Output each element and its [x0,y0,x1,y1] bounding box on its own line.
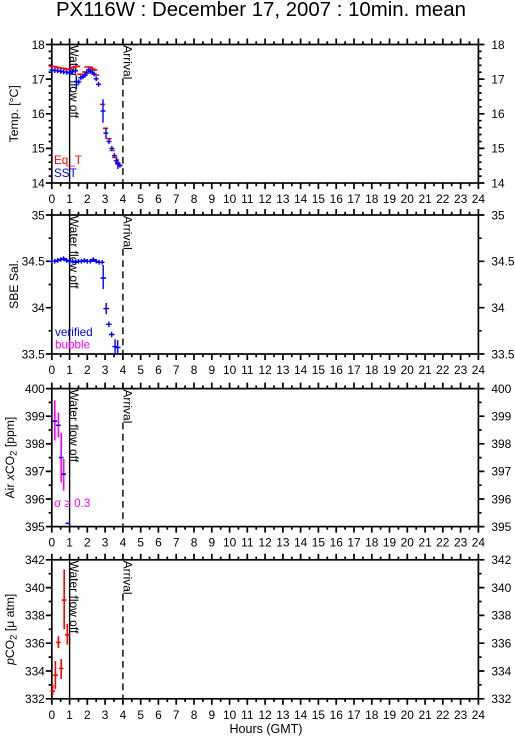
svg-text:15: 15 [312,536,326,550]
svg-text:19: 19 [383,708,397,722]
panel 4 y tick labels [25,553,512,706]
svg-text:3: 3 [102,708,109,722]
svg-text:4: 4 [120,536,127,550]
svg-text:399: 399 [491,410,511,424]
svg-text:8: 8 [191,363,198,377]
svg-text:2: 2 [84,536,91,550]
svg-text:14: 14 [294,708,308,722]
svg-text:34.5: 34.5 [22,255,46,269]
svg-text:2: 2 [84,192,91,206]
svg-text:21: 21 [418,192,432,206]
series air xCO2 error bars (magenta, panel 3) [55,400,64,491]
svg-text:11: 11 [241,192,254,206]
svg-text:15: 15 [312,192,326,206]
svg-text:20: 20 [401,536,415,550]
svg-text:11: 11 [241,363,254,377]
svg-text:16: 16 [32,107,46,121]
water flow off line panel 1 [69,45,71,184]
svg-text:398: 398 [25,437,45,451]
svg-text:10: 10 [223,363,237,377]
svg-text:12: 12 [258,708,272,722]
svg-text:23: 23 [454,708,468,722]
svg-text:13: 13 [276,536,290,550]
svg-text:23: 23 [454,363,468,377]
svg-text:14: 14 [491,176,505,190]
water flow off line panel 2 [69,215,71,354]
panel 2 y tick labels [22,208,515,361]
svg-text:13: 13 [276,363,290,377]
svg-text:7: 7 [173,536,180,550]
svg-text:3: 3 [102,192,109,206]
arrival line panel 4 [122,594,124,699]
svg-text:34.5: 34.5 [491,255,515,269]
svg-text:34: 34 [32,301,46,315]
svg-text:14: 14 [32,176,46,190]
series pCO2 (red, panel 4) [50,570,69,695]
water flow off line panel 4 [69,560,71,699]
svg-text:11: 11 [241,708,254,722]
panel 3 x tick labels [48,536,485,550]
svg-text:18: 18 [365,192,379,206]
svg-text:5: 5 [137,708,144,722]
svg-text:4: 4 [120,192,127,206]
svg-text:Water flow off: Water flow off [67,389,81,462]
svg-text:15: 15 [312,708,326,722]
svg-text:6: 6 [155,363,162,377]
series Eq_T (red dashes, panel 1) [49,66,122,165]
svg-text:35: 35 [32,208,46,222]
svg-text:SBE Sal.: SBE Sal. [7,260,21,309]
svg-text:6: 6 [155,536,162,550]
svg-text:Water flow off: Water flow off [67,216,81,289]
svg-text:400: 400 [491,382,511,396]
svg-text:332: 332 [491,692,511,706]
svg-text:6: 6 [155,708,162,722]
svg-text:SST: SST [54,167,77,180]
svg-text:9: 9 [208,363,215,377]
svg-text:15: 15 [312,363,326,377]
svg-text:10: 10 [223,192,237,206]
svg-text:10: 10 [223,708,237,722]
svg-text:0: 0 [48,192,55,206]
svg-text:14: 14 [294,363,308,377]
svg-text:11: 11 [241,536,254,550]
svg-text:14: 14 [294,536,308,550]
svg-text:21: 21 [418,708,432,722]
svg-text:395: 395 [25,520,45,534]
svg-text:17: 17 [347,536,361,550]
svg-text:18: 18 [365,536,379,550]
svg-text:1: 1 [66,536,73,550]
svg-text:336: 336 [25,637,45,651]
svg-text:396: 396 [25,492,45,506]
svg-text:24: 24 [472,708,486,722]
svg-text:1: 1 [66,708,73,722]
svg-text:20: 20 [401,192,415,206]
svg-text:23: 23 [454,536,468,550]
svg-text:Water flow off: Water flow off [67,561,81,634]
svg-text:8: 8 [191,708,198,722]
svg-text:2: 2 [84,363,91,377]
svg-text:1: 1 [66,192,73,206]
svg-text:397: 397 [491,465,511,479]
svg-text:15: 15 [32,142,46,156]
svg-text:18: 18 [32,38,46,52]
svg-text:0: 0 [48,536,55,550]
svg-text:6: 6 [155,192,162,206]
svg-text:334: 334 [25,664,45,678]
svg-text:9: 9 [208,708,215,722]
svg-text:22: 22 [436,363,450,377]
svg-text:398: 398 [491,437,511,451]
panel 3 y tick labels [25,382,512,534]
svg-text:21: 21 [418,363,432,377]
svg-text:9: 9 [208,536,215,550]
svg-text:2: 2 [84,708,91,722]
svg-text:17: 17 [347,192,361,206]
svg-text:PX116W : December 17, 2007 : 1: PX116W : December 17, 2007 : 10min. mean [56,0,466,21]
svg-text:22: 22 [436,536,450,550]
svg-text:342: 342 [491,553,511,567]
svg-text:334: 334 [491,664,511,678]
series SST (blue pluses, panel 1) [49,67,122,169]
svg-text:12: 12 [258,363,272,377]
svg-text:338: 338 [491,609,511,623]
series salinity flat line (blue, panel 2) [52,259,102,263]
svg-text:33.5: 33.5 [491,347,515,361]
svg-text:21: 21 [418,536,432,550]
svg-text:24: 24 [472,536,486,550]
svg-text:16: 16 [330,363,344,377]
svg-text:400: 400 [25,382,45,396]
svg-text:24: 24 [472,363,486,377]
svg-text:7: 7 [173,192,180,206]
svg-text:340: 340 [25,581,45,595]
svg-text:12: 12 [258,192,272,206]
svg-text:18: 18 [365,363,379,377]
arrival line panel 1 [122,79,124,184]
series air xCO2 centers (blue dashes, panel 3) [53,421,71,523]
svg-text:24: 24 [472,192,486,206]
svg-text:verified: verified [55,326,93,339]
svg-text:34: 34 [491,301,505,315]
svg-text:342: 342 [25,553,45,567]
svg-text:13: 13 [276,708,290,722]
svg-text:15: 15 [491,142,505,156]
svg-text:16: 16 [330,708,344,722]
svg-text:4: 4 [120,363,127,377]
svg-text:20: 20 [401,708,415,722]
panel 1 y tick labels [32,38,505,191]
svg-text:338: 338 [25,609,45,623]
svg-text:14: 14 [294,192,308,206]
svg-text:3: 3 [102,363,109,377]
svg-text:Temp. [°C]: Temp. [°C] [7,85,21,142]
svg-text:19: 19 [383,363,397,377]
svg-text:395: 395 [491,520,511,534]
svg-text:16: 16 [491,107,505,121]
svg-text:8: 8 [191,536,198,550]
svg-text:5: 5 [137,363,144,377]
svg-text:16: 16 [330,536,344,550]
svg-text:33.5: 33.5 [22,347,46,361]
svg-text:18: 18 [491,38,505,52]
arrival line panel 3 [122,423,124,527]
svg-text:10: 10 [223,536,237,550]
svg-text:7: 7 [173,708,180,722]
svg-text:17: 17 [347,708,361,722]
svg-text:9: 9 [208,192,215,206]
svg-text:0: 0 [48,708,55,722]
panel 2 axes frame [46,209,485,360]
svg-text:17: 17 [491,72,505,86]
svg-text:Hours (GMT): Hours (GMT) [230,722,303,736]
svg-text:20: 20 [401,363,415,377]
svg-text:19: 19 [383,192,397,206]
svg-text:Arrival: Arrival [121,561,135,595]
svg-text:7: 7 [173,363,180,377]
svg-text:332: 332 [25,692,45,706]
panel 2 x tick labels [48,363,485,377]
water flow off line panel 3 [69,389,71,527]
svg-text:1: 1 [66,363,73,377]
svg-text:22: 22 [436,192,450,206]
svg-text:336: 336 [491,637,511,651]
svg-text:4: 4 [120,708,127,722]
svg-text:23: 23 [454,192,468,206]
svg-text:13: 13 [276,192,290,206]
svg-text:5: 5 [137,192,144,206]
svg-text:16: 16 [330,192,344,206]
svg-text:399: 399 [25,410,45,424]
svg-text:17: 17 [347,363,361,377]
svg-text:12: 12 [258,536,272,550]
series salinity drop markers (blue, panel 2) [50,256,121,355]
panel 4 axes frame [46,554,485,705]
svg-text:bubble: bubble [55,338,90,351]
svg-text:3: 3 [102,536,109,550]
panel 4 x tick labels [48,708,485,722]
panel 3 axes frame [46,383,485,533]
svg-text:397: 397 [25,465,45,479]
svg-text:18: 18 [365,708,379,722]
svg-text:340: 340 [491,581,511,595]
svg-text:35: 35 [491,208,505,222]
svg-text:8: 8 [191,192,198,206]
panel 1 x tick labels [48,192,485,206]
svg-text:396: 396 [491,492,511,506]
arrival line panel 2 [122,249,124,354]
svg-text:17: 17 [32,72,46,86]
svg-text:19: 19 [383,536,397,550]
svg-text:σ ≥ 0.3: σ ≥ 0.3 [54,497,90,510]
svg-text:5: 5 [137,536,144,550]
svg-text:0: 0 [48,363,55,377]
svg-text:22: 22 [436,708,450,722]
panel 1 axes frame [46,39,485,190]
svg-text:Arrival: Arrival [121,389,135,423]
svg-text:Arrival: Arrival [121,45,135,79]
svg-text:Eq_T: Eq_T [54,154,82,167]
svg-text:Arrival: Arrival [121,216,135,250]
